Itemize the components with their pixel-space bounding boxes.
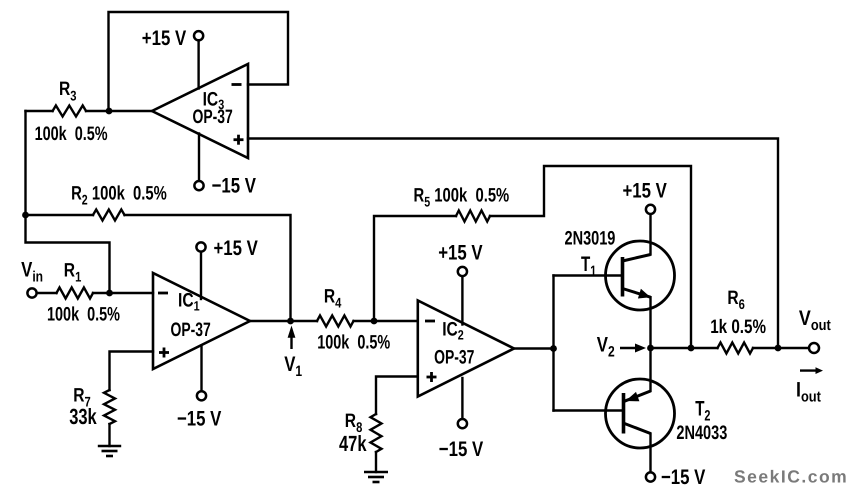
svg-text:Iout: Iout [796, 378, 821, 405]
svg-text:V2: V2 [597, 334, 615, 361]
svg-text:1k 0.5%: 1k 0.5% [710, 316, 766, 338]
svg-text:+15 V: +15 V [214, 237, 258, 260]
svg-text:+15 V: +15 V [623, 179, 667, 202]
svg-text:V1: V1 [284, 353, 302, 380]
svg-text:47k: 47k [339, 431, 367, 456]
svg-text:SeekIC.com: SeekIC.com [734, 467, 848, 487]
svg-text:2N4033: 2N4033 [676, 422, 727, 444]
svg-text:100k 0.5%: 100k 0.5% [47, 304, 120, 326]
svg-text:−15 V: −15 V [439, 438, 483, 461]
svg-text:IC3: IC3 [203, 88, 225, 112]
svg-text:R3: R3 [59, 78, 77, 103]
svg-text:R1: R1 [64, 259, 82, 284]
svg-text:R2 100k 0.5%: R2 100k 0.5% [71, 183, 167, 208]
svg-text:33k: 33k [69, 404, 97, 429]
svg-text:−15 V: −15 V [661, 466, 705, 489]
svg-text:R5 100k 0.5%: R5 100k 0.5% [414, 184, 510, 209]
svg-text:+15 V: +15 V [438, 242, 482, 265]
svg-text:Vout: Vout [799, 307, 831, 334]
svg-text:Vin: Vin [21, 258, 43, 285]
svg-text:R4: R4 [324, 286, 342, 311]
svg-text:OP-37: OP-37 [434, 346, 474, 368]
svg-text:+15 V: +15 V [142, 27, 186, 50]
svg-text:R6: R6 [727, 287, 745, 312]
svg-text:T2: T2 [695, 397, 710, 424]
svg-text:−15 V: −15 V [177, 407, 221, 430]
svg-text:2N3019: 2N3019 [565, 227, 616, 249]
svg-text:100k 0.5%: 100k 0.5% [35, 123, 108, 145]
svg-text:OP-37: OP-37 [171, 319, 211, 341]
svg-text:100k 0.5%: 100k 0.5% [317, 331, 390, 353]
svg-text:−15 V: −15 V [212, 175, 256, 198]
